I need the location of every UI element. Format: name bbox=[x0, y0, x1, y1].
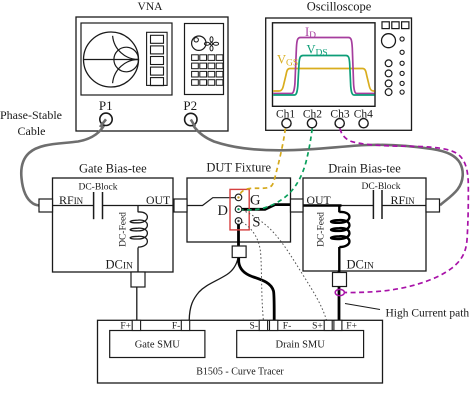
svg-text:Phase-Stable: Phase-Stable bbox=[0, 108, 62, 122]
pad S bbox=[235, 218, 242, 225]
terminal F- (gate) bbox=[181, 320, 189, 330]
DUT source connector stub bbox=[232, 246, 246, 258]
gate DCin connector stub bbox=[131, 272, 145, 287]
drain DCin connector stub bbox=[333, 273, 347, 287]
current probe marker bbox=[335, 289, 344, 295]
sense dotted wire to S+ bbox=[246, 212, 327, 321]
gate RF wire bbox=[53, 205, 94, 207]
oscilloscope screen bbox=[273, 23, 376, 107]
smith chart lower reactance arc bbox=[113, 60, 139, 84]
DUT outline (red) bbox=[230, 189, 249, 230]
drain RFin connector stub bbox=[426, 199, 440, 212]
DUT / drain OUT connector stub bbox=[291, 199, 304, 212]
svg-text:RFIN: RFIN bbox=[391, 193, 416, 207]
VNA button grid bbox=[192, 55, 223, 85]
source wire to drain F- (thick) bbox=[239, 256, 275, 320]
port P1 connector bbox=[100, 113, 112, 125]
gate bias-tee box bbox=[53, 178, 174, 272]
waveform VDS (teal) bbox=[273, 56, 374, 96]
svg-text:F-: F- bbox=[283, 321, 291, 331]
cable P2 to drain RFin bbox=[191, 121, 463, 205]
drain bias-tee box bbox=[303, 178, 426, 271]
svg-text:RFIN: RFIN bbox=[59, 193, 84, 207]
smith chart upper reactance arc bbox=[113, 36, 139, 60]
svg-text:Gate SMU: Gate SMU bbox=[135, 340, 181, 351]
drain wire out of DUT bbox=[242, 205, 291, 210]
VNA screen bbox=[81, 23, 172, 95]
VNA softkey column bbox=[147, 32, 168, 85]
svg-text:DC-Block: DC-Block bbox=[361, 182, 400, 192]
pad D bbox=[235, 206, 242, 213]
drain OUT wire (thick) bbox=[303, 204, 342, 206]
inductor DC-Feed (gate) bbox=[137, 206, 139, 213]
scope left button circles bbox=[385, 60, 392, 96]
B1505 curve tracer box bbox=[98, 320, 383, 383]
VNA keypad panel bbox=[185, 24, 224, 95]
gate RFin connector stub bbox=[39, 199, 53, 212]
Gate SMU box bbox=[110, 331, 205, 358]
dashed probe Ch2 to drain pad (green) bbox=[241, 129, 312, 210]
svg-text:D: D bbox=[218, 203, 228, 219]
capacitor DC-Block (gate) bbox=[93, 192, 95, 219]
capacitor DC-Block (drain) bbox=[372, 190, 374, 219]
pad G bbox=[235, 194, 242, 201]
svg-text:DC-Block: DC-Block bbox=[78, 183, 117, 193]
gate DCin wire bbox=[137, 248, 139, 273]
svg-text:Drain Bias-tee: Drain Bias-tee bbox=[328, 162, 401, 176]
svg-text:S: S bbox=[252, 215, 260, 231]
svg-text:F+: F+ bbox=[346, 321, 357, 331]
scope top squares bbox=[382, 22, 409, 29]
scope knob bbox=[382, 34, 396, 48]
svg-text:Oscilloscope: Oscilloscope bbox=[307, 0, 372, 14]
dashed probe Ch1 to gate pad (yellow) bbox=[239, 129, 285, 198]
svg-text:Cable: Cable bbox=[18, 124, 46, 138]
oscilloscope enclosure bbox=[266, 18, 412, 130]
sense dotted wire to S- bbox=[242, 222, 263, 320]
svg-text:VNA: VNA bbox=[138, 1, 164, 13]
svg-text:DUT Fixture: DUT Fixture bbox=[206, 161, 271, 175]
smith chart outer circle bbox=[84, 32, 139, 87]
svg-text:F+: F+ bbox=[120, 321, 131, 331]
svg-text:P1: P1 bbox=[99, 98, 113, 113]
cable P1 to gate RFin bbox=[21, 121, 106, 206]
VNA enclosure bbox=[76, 17, 228, 131]
channel Ch2 connector bbox=[307, 119, 316, 128]
svg-text:Gate Bias-tee: Gate Bias-tee bbox=[79, 162, 147, 176]
DUT fixture box bbox=[187, 178, 291, 242]
svg-text:S-: S- bbox=[250, 321, 258, 331]
gate wire into DUT bbox=[187, 198, 235, 206]
svg-text:B1505 - Curve Tracer: B1505 - Curve Tracer bbox=[196, 367, 284, 378]
svg-text:DC-Feed: DC-Feed bbox=[119, 212, 129, 247]
softkey buttons bbox=[151, 35, 164, 85]
high current path pointer bbox=[345, 304, 380, 310]
smith chart resistance circle bbox=[114, 47, 139, 72]
smith chart axis bbox=[84, 59, 139, 61]
source wire down bbox=[237, 222, 240, 258]
svg-text:OUT: OUT bbox=[146, 193, 171, 207]
svg-text:G: G bbox=[250, 193, 261, 209]
waveform VGS (yellow) bbox=[273, 69, 374, 92]
inductor DC-Feed (drain) bbox=[338, 206, 340, 213]
channel Ch3 connector bbox=[335, 119, 344, 128]
terminal S+ (drain) bbox=[324, 320, 332, 330]
VNA knob bbox=[192, 36, 206, 50]
port P2 connector bbox=[185, 113, 197, 125]
svg-text:P2: P2 bbox=[183, 98, 197, 113]
channel Ch1 connector bbox=[282, 119, 291, 128]
dashed probe Ch3 current loop (magenta) bbox=[340, 129, 468, 293]
gate OUT / DUT connector stub bbox=[174, 199, 187, 212]
svg-text:Drain SMU: Drain SMU bbox=[276, 340, 326, 351]
Drain SMU box bbox=[237, 331, 364, 358]
gate DCin wire to F+ bbox=[136, 287, 138, 320]
svg-text:S+: S+ bbox=[312, 321, 323, 331]
svg-text:DC-Feed: DC-Feed bbox=[317, 212, 327, 247]
terminal S- (drain) bbox=[259, 320, 267, 330]
waveform ID (magenta) bbox=[273, 38, 374, 94]
scope small dots right column bbox=[400, 37, 404, 94]
svg-text:OUT: OUT bbox=[307, 193, 332, 207]
drain DCin wire (thick, high current) bbox=[338, 247, 340, 271]
channel Ch4 connector bbox=[359, 119, 368, 128]
source wire to gate F- (thin) bbox=[189, 258, 238, 320]
svg-text:High Current path: High Current path bbox=[386, 308, 470, 320]
VNA nav cluster bbox=[204, 37, 218, 51]
svg-text:F-: F- bbox=[172, 321, 180, 331]
terminal F+ (gate) bbox=[132, 320, 140, 330]
